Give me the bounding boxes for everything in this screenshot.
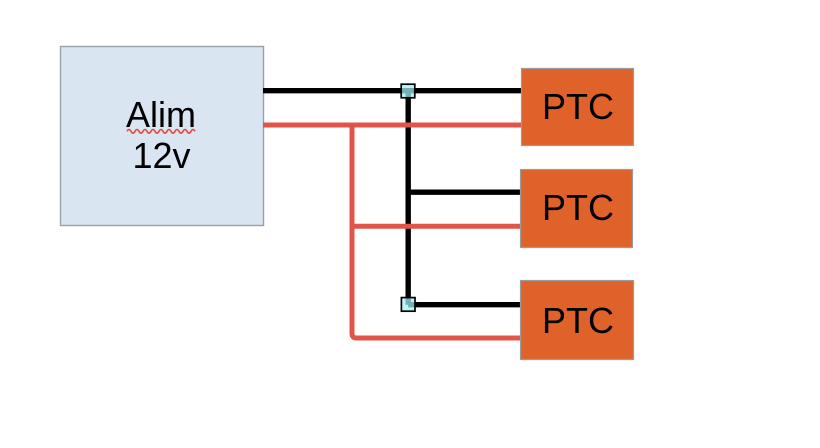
PTC box 3 <box>521 281 634 360</box>
svg-text:12v: 12v <box>132 135 190 176</box>
wire red branch to PTC2 <box>352 224 521 229</box>
junction node lower <box>401 298 415 312</box>
svg-text:PTC: PTC <box>542 300 614 341</box>
wire red - Alim to PTC1 <box>263 123 521 128</box>
PTC box 2 <box>521 170 633 248</box>
junction node upper <box>401 84 415 98</box>
power supply box Alim 12v <box>61 47 264 226</box>
svg-text:PTC: PTC <box>542 86 614 127</box>
svg-text:PTC: PTC <box>542 187 614 228</box>
wire red vertical bus <box>352 125 521 338</box>
wire black vertical bus <box>406 91 411 305</box>
wire black branch to PTC3 <box>408 302 521 307</box>
spellcheck squiggle under Alim <box>127 130 195 134</box>
wire black branch to PTC2 <box>408 189 521 194</box>
PTC box 1 <box>522 69 634 146</box>
wire black + Alim to PTC1 <box>263 88 521 93</box>
